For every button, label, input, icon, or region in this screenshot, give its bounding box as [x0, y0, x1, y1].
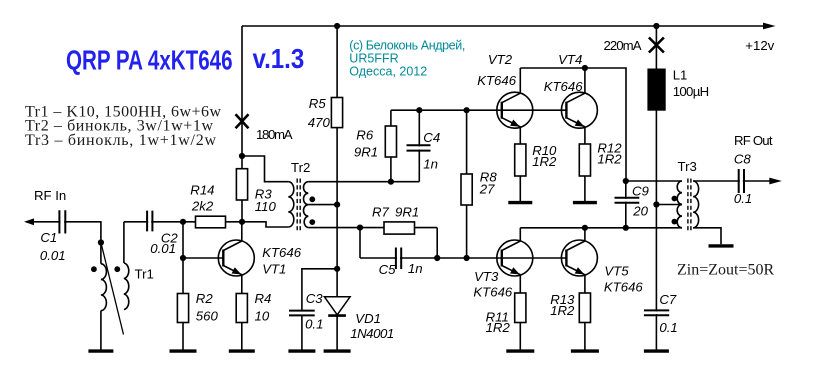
wire lower collector bus to Tr3 bottom — [520, 227, 682, 229]
capacitor C1 — [59, 210, 65, 233]
wire VD1 cathode to ground — [336, 315, 338, 351]
wire VT3 emitter riser — [519, 275, 521, 294]
arrow +12v — [763, 23, 776, 30]
meter break X 220mA — [649, 38, 664, 53]
svg-text:470: 470 — [308, 115, 331, 130]
wire VT1 base — [183, 257, 223, 259]
wire C4 branch — [418, 110, 420, 182]
wire R11 to ground — [519, 323, 521, 352]
pin Tr3 polarity dot lower — [672, 219, 678, 225]
svg-text:Tr2: Tr2 — [291, 160, 310, 175]
svg-text:R6: R6 — [356, 128, 374, 143]
wire R6 branch — [390, 110, 392, 182]
node VT4 collector — [582, 65, 588, 71]
resistor R5 — [331, 98, 342, 128]
wire upper base bus VT2 VT4 — [391, 109, 567, 111]
node C5 right — [434, 255, 440, 261]
resistor R11 — [515, 293, 526, 323]
svg-text:0.01: 0.01 — [150, 241, 176, 256]
node R6 bottom — [388, 179, 394, 185]
resistor R12 — [579, 144, 590, 176]
node R8 bottom — [464, 255, 470, 261]
ground R4 — [229, 349, 255, 352]
svg-text:R7: R7 — [372, 205, 390, 220]
resistor R8 — [461, 174, 472, 205]
svg-text:R2: R2 — [196, 291, 214, 306]
svg-text:1n: 1n — [408, 261, 423, 276]
svg-text:0.1: 0.1 — [305, 317, 323, 332]
svg-text:180mA: 180mA — [256, 127, 293, 142]
wire R4 to ground — [241, 323, 243, 352]
ground Tr3 secondary — [709, 244, 734, 247]
ground Tr1 — [88, 349, 113, 352]
svg-text:R5: R5 — [309, 96, 327, 111]
svg-text:QRP PA 4xKT646: QRP PA 4xKT646 — [66, 45, 233, 76]
resistor R4 — [236, 294, 247, 323]
svg-text:1n: 1n — [423, 157, 438, 172]
ground R12 — [573, 201, 597, 204]
svg-text:Одесса, 2012: Одесса, 2012 — [349, 65, 427, 79]
arrow RF In — [24, 218, 34, 225]
svg-text:KT646: KT646 — [604, 280, 644, 295]
wire Tr2 primary bottom jog — [242, 222, 288, 227]
pin Tr2 polarity dot upper — [309, 196, 315, 202]
wire R12 to ground — [584, 176, 586, 202]
transistor VT4 — [561, 92, 597, 128]
svg-text:1N4001: 1N4001 — [350, 326, 394, 341]
wire VT2 emitter riser — [519, 127, 521, 144]
svg-text:KT646: KT646 — [473, 285, 513, 300]
arrow RF Out — [769, 178, 782, 185]
wire Tr2 primary top from node 180mA — [242, 156, 288, 182]
wire Tr1 left winding bottom to ground — [100, 311, 102, 351]
svg-text:+12v: +12v — [745, 38, 774, 53]
wire R7 C5 right link — [436, 228, 438, 258]
svg-text:UR5FFR: UR5FFR — [349, 52, 398, 66]
node top rail R5 — [334, 23, 340, 29]
wire lower base bus C5 to VT3 VT5 — [360, 257, 566, 259]
wire RF In to C1 and down to Tr1 — [26, 222, 101, 264]
wire C9 branch — [625, 181, 627, 228]
pin Tr3 polarity dot upper — [672, 196, 678, 202]
wire R2 to ground — [182, 323, 184, 352]
node 180mA R3 top — [239, 153, 245, 159]
capacitor C8 — [739, 169, 744, 193]
node VT1 base — [180, 255, 186, 261]
wire R10 to ground — [519, 176, 521, 202]
svg-text:Tr1: Tr1 — [135, 267, 154, 282]
pin Tr1 polarity dot right — [114, 266, 120, 272]
ground R11 — [506, 349, 534, 352]
svg-text:9R1: 9R1 — [354, 145, 378, 160]
wire Tr2 center tap — [308, 204, 337, 206]
ground R2 — [170, 349, 197, 352]
resistor R13 — [579, 293, 590, 323]
wire L1 supply line down to C7 ground — [655, 26, 657, 351]
node R8 top — [464, 107, 470, 113]
svg-text:VT5: VT5 — [604, 264, 629, 279]
capacitor C9 — [615, 198, 640, 203]
transformer Tr1 — [101, 243, 129, 335]
wire VT1 emitter riser — [241, 275, 243, 294]
svg-text:RF In: RF In — [34, 188, 66, 203]
node R7 C5 left — [357, 225, 363, 231]
transistor VT2 — [497, 92, 533, 128]
node Tr3 center tap L1 — [653, 201, 659, 207]
svg-text:20: 20 — [632, 203, 648, 218]
svg-text:C1: C1 — [40, 230, 57, 245]
node C9 bottom — [623, 225, 629, 231]
ground R13 — [571, 349, 599, 352]
svg-text:VT4: VT4 — [558, 52, 582, 67]
ground C7 — [644, 349, 669, 352]
wire VT4 collector riser — [584, 68, 586, 94]
svg-text:R14: R14 — [190, 183, 214, 198]
wire VT1 collector riser — [241, 222, 243, 242]
transistor VT1 — [218, 240, 254, 276]
svg-text:VT3: VT3 — [474, 269, 499, 284]
svg-text:C3: C3 — [306, 291, 324, 306]
ground C3 — [288, 349, 315, 352]
resistor R6 — [385, 126, 396, 157]
svg-text:v.1.3: v.1.3 — [253, 42, 305, 74]
svg-text:L1: L1 — [673, 68, 688, 83]
wire Tr3 primary top — [626, 180, 682, 182]
svg-text:1R2: 1R2 — [597, 152, 622, 167]
svg-text:1R2: 1R2 — [532, 154, 557, 169]
svg-text:110: 110 — [255, 199, 277, 214]
capacitor C2 — [147, 211, 152, 232]
svg-text:C8: C8 — [734, 151, 752, 166]
resistor R7 — [384, 222, 415, 234]
svg-text:9R1: 9R1 — [395, 205, 419, 220]
node VT5 collector — [582, 225, 588, 231]
svg-text:0.1: 0.1 — [659, 320, 677, 335]
wire R5 VD1 bias line — [336, 26, 338, 297]
transistor VT3 — [497, 240, 533, 276]
svg-text:C5: C5 — [379, 262, 397, 277]
svg-text:C4: C4 — [423, 130, 440, 145]
node C9 top — [623, 178, 629, 184]
svg-text:Tr3 – бинокль, 1w+1w/2w: Tr3 – бинокль, 1w+1w/2w — [25, 132, 216, 149]
svg-text:KT646: KT646 — [262, 245, 302, 260]
capacitor C4 — [407, 145, 431, 150]
svg-text:10: 10 — [255, 309, 270, 324]
svg-text:KT646: KT646 — [477, 73, 517, 88]
pin Tr2 polarity dot lower — [309, 219, 315, 225]
wire left drop to R3 — [241, 26, 243, 222]
svg-text:0.1: 0.1 — [734, 191, 752, 206]
svg-text:(c) Белоконь Андрей,: (c) Белоконь Андрей, — [349, 39, 465, 53]
svg-text:KT646: KT646 — [544, 79, 584, 94]
pin Tr1 polarity dot left — [91, 266, 97, 272]
wire R13 to ground — [584, 323, 586, 352]
ground VD1 — [324, 349, 351, 352]
svg-text:100µH: 100µH — [673, 84, 710, 99]
resistor R10 — [515, 144, 526, 176]
node VT1 collector — [239, 219, 245, 225]
wire Tr2 secondary bottom to R7 node — [308, 227, 360, 229]
wire R7 C5 left link — [359, 228, 361, 258]
svg-text:2k2: 2k2 — [191, 199, 214, 214]
svg-text:1R2: 1R2 — [550, 303, 575, 318]
capacitor C7 — [644, 310, 669, 315]
node Tr2 center tap — [334, 202, 340, 208]
svg-text:VD1: VD1 — [355, 311, 381, 326]
svg-text:1R2: 1R2 — [486, 320, 511, 335]
wire Tr3 secondary bottom to ground — [693, 228, 721, 245]
wire VT2 collector riser — [519, 68, 521, 94]
svg-text:27: 27 — [479, 182, 495, 197]
resistor R3 — [236, 169, 247, 200]
wire Tr1 right winding up to C2 — [123, 222, 125, 263]
node VD1 C3 — [334, 266, 340, 272]
wire R8 branch — [466, 110, 468, 258]
svg-text:C7: C7 — [659, 292, 677, 307]
wire R7 row — [360, 227, 437, 229]
capacitor C5 — [396, 248, 401, 270]
svg-text:Zin=Zout=50R: Zin=Zout=50R — [677, 262, 774, 279]
capacitor C3 — [289, 311, 315, 316]
node C4 top — [416, 107, 422, 113]
wire VT4 emitter riser — [584, 127, 586, 144]
wire upper collector bus to Tr3 top — [520, 68, 626, 181]
svg-text:VT1: VT1 — [262, 262, 286, 277]
resistor R14 — [196, 216, 226, 228]
svg-text:560: 560 — [196, 309, 219, 324]
svg-text:C9: C9 — [632, 184, 650, 199]
wire top +12v rail — [242, 25, 770, 27]
wire C3 branch — [302, 269, 337, 311]
ground R10 — [508, 201, 532, 204]
diode VD1 — [324, 297, 350, 316]
svg-text:R4: R4 — [255, 291, 272, 306]
transformer Tr2 — [288, 179, 308, 231]
node top rail L1 — [653, 23, 659, 29]
wire VT3 collector riser — [519, 228, 521, 242]
wire Tr3 center tap — [656, 204, 682, 206]
wire C3 to ground — [301, 315, 303, 351]
resistor R2 — [177, 294, 188, 323]
wire C2 R14 row to collector node — [124, 221, 242, 223]
svg-text:Tr3: Tr3 — [678, 159, 697, 174]
wire VT5 collector riser — [584, 228, 586, 242]
inductor L1 — [647, 69, 665, 111]
transformer Tr3 — [677, 179, 698, 231]
wire VT5 emitter riser — [584, 275, 586, 294]
transistor VT5 — [561, 240, 597, 276]
node C2 R14 base — [180, 219, 186, 225]
wire Tr3 secondary top to C8 and RF Out — [693, 180, 771, 182]
svg-text:0.01: 0.01 — [40, 248, 66, 263]
wire Tr2 secondary top to C4 — [308, 181, 419, 183]
wire base node down to R2 — [182, 222, 184, 294]
svg-text:VT2: VT2 — [488, 52, 513, 67]
node Tr1 tap junction — [98, 239, 104, 245]
svg-text:220mA: 220mA — [604, 38, 642, 53]
svg-text:RF Out: RF Out — [734, 133, 773, 148]
meter break X 180mA — [236, 114, 249, 128]
